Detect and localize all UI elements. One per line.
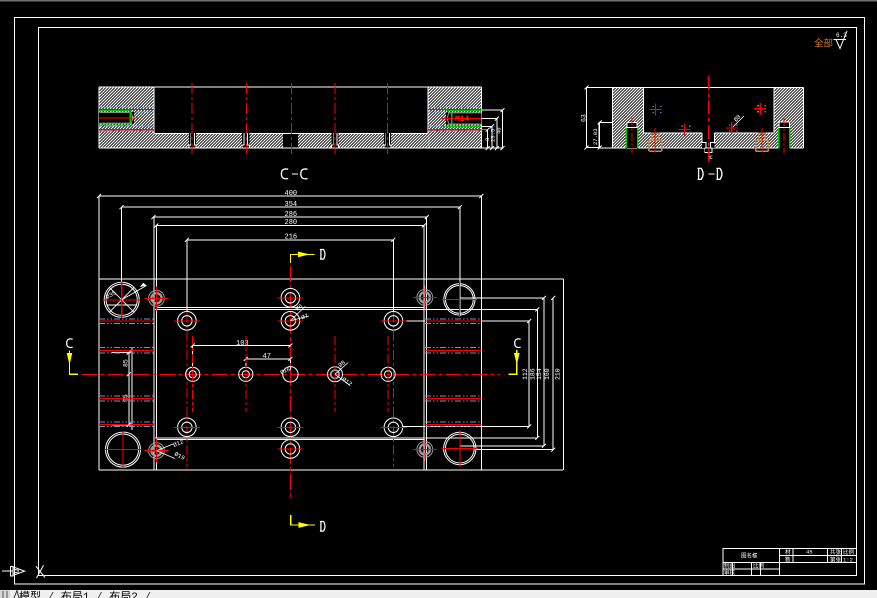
C-C bottom plate center hole (283, 134, 298, 147)
center row hole 3 (279, 366, 298, 382)
right dim stub row2 (403, 320, 529, 322)
D-D left dowel pin (brown) (649, 133, 662, 151)
svg-text:210: 210 (555, 368, 562, 380)
right outer band edge (480, 196, 482, 470)
svg-text:154: 154 (536, 368, 543, 380)
dim 47 line (246, 358, 291, 360)
plan vertical centerline right column (392, 312, 394, 467)
D-D hole center mark 4 (754, 103, 766, 115)
dim line 286 (153, 216, 426, 218)
ghost hole bottom-right (413, 437, 437, 461)
D-D hole center mark 2 (679, 123, 691, 135)
svg-text:图名框: 图名框 (741, 552, 758, 560)
title block texts (724, 548, 855, 577)
right hidden slot stripes group4 (425, 422, 481, 427)
dim line 400 (99, 195, 481, 197)
right dim stub row4 (403, 425, 529, 427)
D-D center counterbore hole (702, 132, 715, 152)
D-D view label (698, 168, 704, 180)
D-D right wall hatch (774, 87, 804, 148)
C-C right wall hatch (428, 87, 481, 148)
left hidden slot stripes group1 (99, 319, 154, 324)
screw hole row2 right (380, 312, 406, 331)
svg-text:216: 216 (285, 233, 298, 241)
C-C right slot centerline (442, 118, 481, 120)
dim line 280 (156, 225, 424, 227)
center row hole 1 (186, 336, 200, 412)
left hidden slot stripes group2 (99, 347, 154, 353)
svg-text:比例: 比例 (843, 548, 855, 556)
D-D right dowel pin (brown) (756, 133, 769, 151)
D-D left dowel centerline (654, 128, 656, 153)
right dim stub row top (460, 297, 544, 299)
top window strip (0, 0, 877, 2)
plate right edge (563, 279, 565, 470)
C-C outline (99, 87, 481, 148)
svg-text:6.3: 6.3 (836, 32, 847, 39)
D-D dim 27.03 (600, 122, 613, 147)
svg-text:40: 40 (496, 127, 503, 134)
D-D bottom plate hatch (644, 133, 774, 148)
plate left edge (98, 196, 100, 470)
svg-text:制图: 制图 (724, 562, 736, 570)
C-C centerline col 3 (291, 83, 293, 157)
guide pillar hole top-right (442, 282, 478, 318)
C-C right wall hidden lines (428, 107, 481, 131)
C-C centerline col 1 (191, 83, 193, 157)
D-D left wall hatch (613, 87, 644, 148)
svg-text:数: 数 (785, 555, 791, 563)
pocket bottom edges (155, 438, 538, 440)
svg-text:比例: 比例 (753, 562, 765, 570)
dim 216 extension left (186, 240, 188, 311)
section marker C left (67, 339, 78, 374)
title block (723, 549, 857, 576)
D-D left screw (green) (626, 122, 637, 148)
svg-text:27.03: 27.03 (592, 128, 599, 145)
dimension oblique ticks (97, 85, 602, 451)
screw hole row2 middle (277, 303, 309, 331)
ghost hole top-left (145, 286, 169, 310)
right dim stub bottom row (476, 449, 553, 451)
guide pillar hole bottom-right (441, 430, 478, 467)
right band edge lines (424, 217, 426, 470)
dim 354 extension left (121, 207, 123, 317)
svg-text:286: 286 (285, 211, 298, 219)
dim 354 extension right (459, 207, 461, 316)
svg-text:1:2: 1:2 (843, 556, 853, 563)
right dim stub ghost row (460, 445, 544, 447)
screw hole row2 left (174, 312, 200, 331)
left hidden slot stripes group3 (99, 396, 154, 401)
guide pillar hole bottom-left (104, 431, 141, 468)
C-C right M14 slot (443, 110, 481, 126)
svg-text:45: 45 (806, 548, 813, 555)
right dim vertical 154 (543, 298, 545, 446)
dim 103 line and extensions (193, 346, 291, 372)
right dim vertical 112 (528, 321, 530, 426)
C-C centerline col 2 (245, 83, 247, 157)
right hidden slot stripes group1 (425, 319, 481, 324)
section marker D top (290, 249, 325, 263)
D-D hole leader (733, 116, 744, 127)
C-C bottom plate screw slit 4 (331, 133, 338, 148)
center row hole 2 (239, 336, 253, 412)
screw hole row4 right (380, 418, 406, 437)
right hidden slot stripes group2 (425, 347, 481, 353)
svg-text:审核: 审核 (724, 568, 736, 576)
screw hole bottom-middle (277, 440, 303, 459)
C-C bottom plate hatch (154, 133, 429, 148)
UCS icon (2, 566, 25, 576)
section marker C right (509, 339, 521, 374)
dim line 354 (122, 206, 460, 208)
D-D right screw (green) (779, 122, 790, 148)
C-C bottom plate screw slit 1 (189, 133, 196, 148)
svg-text:103: 103 (236, 340, 249, 348)
svg-text:47: 47 (263, 353, 271, 361)
center row hole 4 with leaders (328, 336, 354, 412)
C-C bottom plate screw slit 5 (384, 133, 391, 148)
plan main horizontal centerline (82, 373, 500, 375)
svg-text:85: 85 (123, 359, 130, 367)
svg-text:63: 63 (581, 114, 588, 122)
D-D left screw centerline (631, 118, 633, 153)
guide pillar hole top-left (103, 282, 147, 319)
C-C right end dimension lines (481, 110, 502, 148)
C-C left wall hatch (99, 87, 154, 148)
ghost hole bottom-left (145, 438, 187, 463)
right dim vertical 136 (536, 309, 538, 437)
screw hole row4 left (174, 418, 200, 437)
C-C view label (281, 169, 288, 179)
svg-text:共张: 共张 (830, 548, 842, 556)
surface roughness symbol (834, 31, 848, 49)
svg-text:400: 400 (285, 190, 298, 198)
C-C centerline col 4 (334, 83, 336, 157)
plate bottom edge (99, 469, 563, 471)
model/layout tab bar (0, 590, 877, 598)
left band edge lines (154, 217, 157, 470)
svg-text:材: 材 (785, 548, 791, 556)
D-D outline (599, 87, 803, 148)
right dim vertical 160 (552, 298, 554, 450)
C-C bottom plate screw slit 2 (242, 133, 249, 148)
center row hole 5 (381, 336, 395, 412)
screw hole row4 middle (277, 418, 303, 437)
D-D left step block (599, 122, 613, 148)
screw hole top-middle (277, 289, 303, 308)
pocket top edges (155, 308, 538, 310)
section marker D bottom (291, 515, 325, 532)
svg-text:280: 280 (285, 219, 298, 227)
D-D hole center mark 1 (649, 104, 661, 116)
D-D dim 63 (587, 87, 613, 147)
dim line 216 (187, 239, 393, 241)
UCS X label (36, 565, 45, 578)
svg-text:112: 112 (522, 368, 529, 380)
C-C left insert centerline (99, 117, 138, 119)
plan main vertical centerline (289, 266, 291, 500)
plan vertical centerline left column (186, 312, 188, 467)
right hidden slot stripes group3 (425, 396, 481, 401)
left dim 85/65 lines (112, 347, 133, 430)
D-D right dowel centerline (761, 128, 763, 153)
svg-text:354: 354 (285, 201, 298, 209)
plate top edge (99, 278, 564, 280)
dim 216 extension right (392, 240, 394, 311)
svg-text:160: 160 (544, 368, 551, 380)
D-D hole center mark 3 (726, 122, 738, 134)
plan white outline and dimension lines (99, 196, 564, 470)
ghost hole top-right (413, 285, 437, 309)
D-D right screw centerline (783, 118, 785, 153)
svg-text:全部: 全部 (814, 38, 833, 50)
C-C left insert slot (99, 111, 137, 125)
left hidden slot stripes group4 (99, 422, 154, 427)
svg-text:第张: 第张 (830, 555, 842, 563)
D-D main centerline (708, 76, 710, 162)
C-C left wall hidden lines (99, 107, 154, 131)
svg-text:M14: M14 (455, 115, 470, 124)
C-C centerline col 5 (387, 83, 389, 157)
